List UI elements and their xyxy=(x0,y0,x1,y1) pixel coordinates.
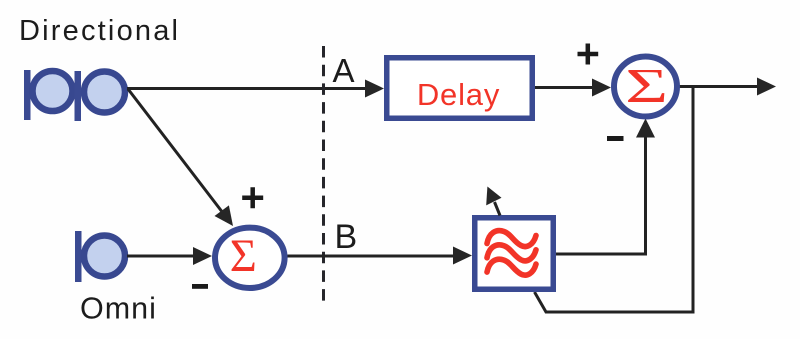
subtractor U2 xyxy=(215,228,285,288)
wire: directional mic to Delay xyxy=(127,87,368,90)
wire: filter output vertical up to summer xyxy=(644,135,647,256)
dashed section divider xyxy=(322,46,325,303)
arrowhead into Delay xyxy=(365,80,384,98)
wire: summer output xyxy=(679,85,759,88)
svg-text:B: B xyxy=(335,218,358,256)
wire: filter output horizontal xyxy=(556,253,647,256)
adaptive filter block F1 xyxy=(475,218,554,290)
directional microphone M1 left capsule xyxy=(24,70,73,120)
plus sign at subtractor top input xyxy=(242,187,263,208)
plus sign at summer top input xyxy=(578,44,599,65)
adaptation arrow line out of filter top xyxy=(495,202,501,216)
svg-text:Σ: Σ xyxy=(230,231,257,282)
arrowhead into subtractor left xyxy=(193,247,212,265)
directional microphone M1 right capsule xyxy=(75,71,126,121)
svg-text:Directional: Directional xyxy=(19,15,180,47)
svg-text:Omni: Omni xyxy=(80,292,157,326)
arrowhead into summer left xyxy=(592,79,611,97)
arrowhead up into summer bottom xyxy=(636,119,655,138)
svg-text:Σ: Σ xyxy=(625,58,668,113)
svg-text:A: A xyxy=(333,52,355,89)
arrowhead into filter left xyxy=(453,247,472,265)
arrowhead at output xyxy=(757,78,776,96)
summer U1 xyxy=(614,57,677,117)
minus sign at subtractor bottom input xyxy=(192,284,208,289)
arrowhead into subtractor top-left xyxy=(215,205,234,226)
Delay block D1 xyxy=(387,58,533,119)
svg-text:Delay: Delay xyxy=(417,77,500,112)
arrowhead of adaptation arrow xyxy=(486,187,501,206)
wire: error feedback from output junction xyxy=(535,87,694,313)
wire: subtractor to adaptive filter xyxy=(288,255,457,258)
wire: Delay to summer xyxy=(535,86,595,89)
omni microphone M2 xyxy=(75,231,125,282)
wire: omni mic to subtractor xyxy=(127,255,196,258)
minus sign at summer bottom input xyxy=(607,136,624,141)
wire: diagonal directional mic to subtractor xyxy=(128,89,223,213)
